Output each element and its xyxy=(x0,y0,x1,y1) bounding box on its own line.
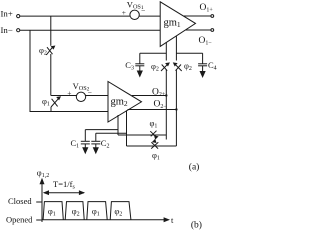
svg-text:+: + xyxy=(67,89,71,98)
svg-text:φ1: φ1 xyxy=(42,96,50,108)
op-amp gm2 xyxy=(108,82,142,123)
wire C1 to gm2 null1 xyxy=(85,129,118,131)
svg-text:φ2: φ2 xyxy=(39,45,47,57)
svg-text:O2+: O2+ xyxy=(152,87,166,98)
arrow T period double headed xyxy=(43,190,85,195)
svg-text:φ1: φ1 xyxy=(92,206,100,218)
switch phi1 output upper xyxy=(150,118,159,140)
wire C4 node horizontal xyxy=(176,52,202,54)
pulse phi1 first xyxy=(43,202,63,220)
wire In- branch down and right to gm2 minus input xyxy=(30,30,108,111)
svg-text:φ2: φ2 xyxy=(151,61,159,73)
switch phi1 output lower xyxy=(151,139,160,162)
svg-text:gm2: gm2 xyxy=(111,97,128,109)
label Opened with tick xyxy=(6,214,42,224)
wire vertical from phi2 switch down to gm2 plus net xyxy=(50,54,52,96)
wire gm2 null1 vertical xyxy=(117,115,119,135)
ground arrow under C3 xyxy=(137,71,143,78)
svg-text:O1−: O1− xyxy=(199,36,213,47)
svg-text:φ2: φ2 xyxy=(72,206,80,218)
switch phi2 top left xyxy=(39,45,55,57)
wire C3 node horizontal xyxy=(140,52,167,54)
svg-text:(a): (a) xyxy=(189,162,200,173)
svg-text:In−: In− xyxy=(1,25,13,35)
pulse phi2 first xyxy=(65,202,84,220)
svg-text:C2: C2 xyxy=(101,138,110,150)
capacitor C1 xyxy=(71,130,90,150)
svg-text:+: + xyxy=(122,8,126,17)
node O1+ output xyxy=(183,3,213,17)
wire gm1 null1 vertical A upper xyxy=(165,42,167,60)
svg-text:φ1: φ1 xyxy=(150,118,158,130)
svg-text:t: t xyxy=(171,215,174,225)
svg-text:In+: In+ xyxy=(1,8,13,18)
ground arrow under C2 xyxy=(93,147,99,154)
timing axis horizontal with arrow xyxy=(42,215,174,225)
voltage source Vos1 xyxy=(122,0,145,20)
svg-text:Opened: Opened xyxy=(6,214,33,224)
svg-text:C3: C3 xyxy=(125,60,134,72)
capacitor C2 xyxy=(91,133,109,149)
capacitor C4 xyxy=(198,53,217,71)
svg-text:gm1: gm1 xyxy=(164,18,181,30)
svg-text:φ1,2: φ1,2 xyxy=(37,168,49,180)
wire In- horizontal xyxy=(20,29,160,31)
wire gm1 null2 vertical B upper xyxy=(175,36,177,60)
wire C2 to gm2 null2 xyxy=(96,132,127,134)
wire vertical from In+ down to phi2 switch xyxy=(50,16,52,46)
pulse phi2 second xyxy=(110,202,131,220)
svg-text:φ2: φ2 xyxy=(114,206,122,218)
op-amp gm1 xyxy=(160,2,195,47)
wire phi1a horizontal xyxy=(118,134,166,136)
wire gm1 null1 vertical A lower xyxy=(165,70,167,140)
svg-text:−: − xyxy=(141,6,145,15)
wire gm1 null2 vertical B lower xyxy=(175,70,177,147)
wire phi1b horizontal xyxy=(127,145,177,147)
node In+ terminal xyxy=(1,8,20,18)
svg-text:(b): (b) xyxy=(191,219,202,230)
ground arrow under C1 xyxy=(82,147,88,154)
svg-text:Closed: Closed xyxy=(8,196,32,206)
svg-text:C1: C1 xyxy=(71,138,80,150)
switch phi2 mid right xyxy=(173,61,192,73)
wire gm2 null2 vertical xyxy=(126,110,128,146)
capacitor C3 xyxy=(125,53,144,71)
wire In+ horizontal xyxy=(20,15,160,17)
ground arrow under C4 xyxy=(200,71,206,78)
svg-text:C4: C4 xyxy=(208,60,217,72)
node O2- output wire xyxy=(128,99,178,110)
switch phi2 mid left xyxy=(151,61,170,73)
svg-text:φ1: φ1 xyxy=(152,150,160,162)
node O1- output xyxy=(185,29,213,47)
switch phi1 left xyxy=(42,96,61,112)
timing axis vertical with arrow xyxy=(37,168,49,223)
svg-text:φ2: φ2 xyxy=(184,61,192,73)
label Closed with tick xyxy=(8,196,42,206)
svg-text:φ1: φ1 xyxy=(48,206,56,218)
wire gm2 plus input xyxy=(51,95,108,97)
svg-text:T=1/fs: T=1/fs xyxy=(53,179,75,191)
voltage source Vos2 xyxy=(67,81,92,102)
pulse phi1 second xyxy=(87,202,107,220)
svg-text:−: − xyxy=(88,88,92,97)
svg-text:O2−: O2− xyxy=(154,99,168,110)
svg-text:O1+: O1+ xyxy=(200,3,214,14)
node In- terminal xyxy=(1,25,20,35)
node O2+ output wire xyxy=(132,87,168,98)
